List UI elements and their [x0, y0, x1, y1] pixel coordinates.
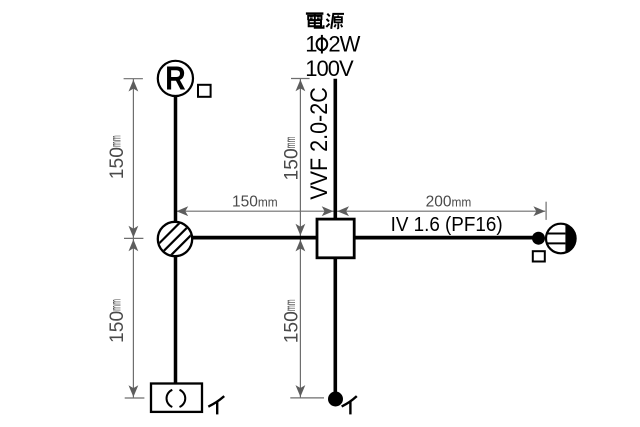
- 源: [326, 14, 330, 27]
- svg-text:IV 1.6 (PF16): IV 1.6 (PF16): [391, 214, 503, 236]
- svg-text:R: R: [165, 60, 186, 97]
- label イ (for rosette): [209, 397, 223, 413]
- dimension tick top-centre: [291, 78, 310, 80]
- dimension tick bottom-left: [125, 397, 145, 399]
- wire: vertical lamp receptacle to outlet box: [174, 96, 178, 223]
- wire: vertical from junction box to switch イ: [333, 258, 337, 393]
- svg-text:2W: 2W: [328, 32, 360, 57]
- junction box (square): [317, 219, 354, 258]
- svg-text:150mm: 150mm: [107, 299, 128, 343]
- ceiling rosette (angular): [151, 384, 202, 412]
- outlet box (hatched circle): [150, 217, 198, 259]
- dimension text 150mm left-bottom (rotated): [107, 299, 128, 343]
- svg-text:150mm: 150mm: [282, 137, 303, 181]
- wall outlet (circle, right half black, two bars): [546, 224, 576, 254]
- label ロ (for right outlet): [533, 251, 545, 261]
- wire: horizontal outlet box to junction box: [191, 236, 317, 240]
- svg-text:150mm: 150mm: [232, 193, 278, 210]
- power source label 電源 (kanji drawn): [306, 14, 344, 29]
- label イ (for switch): [343, 397, 356, 413]
- dimension: left vertical line: [132, 79, 134, 398]
- dimension tick top-left: [124, 78, 143, 80]
- rosette inner ( ): [167, 390, 186, 407]
- switch dot at right outlet: [532, 232, 545, 245]
- svg-text:100V: 100V: [305, 56, 354, 81]
- wire: power feed vertical VVF 2.0-2C: [333, 79, 337, 219]
- svg-text:150mm: 150mm: [107, 135, 128, 179]
- dimension: centre vertical line: [299, 79, 301, 399]
- lamp receptacle R: [158, 61, 193, 96]
- 電: [306, 12, 324, 14]
- svg-text:VVF 2.0-2C: VVF 2.0-2C: [306, 87, 333, 200]
- arrowheads centre dimension: [296, 80, 306, 397]
- svg-text:200mm: 200mm: [426, 193, 472, 210]
- dimension text 150mm centre-bottom (rotated): [282, 299, 303, 343]
- label ロ (for R): [198, 85, 211, 97]
- arrowheads left dimension: [129, 80, 139, 397]
- dimension: horizontal line 150mm/200mm: [176, 210, 545, 212]
- dimension text 150mm centre-top (rotated): [282, 137, 303, 181]
- dimension tick bottom-centre: [290, 397, 324, 399]
- dimension tick right end: [545, 202, 547, 220]
- dimension tick mid-left: [124, 237, 143, 239]
- dimension text 150mm left-top (rotated): [107, 135, 128, 179]
- svg-text:150mm: 150mm: [282, 299, 303, 343]
- arrowheads horizontal dimension: [176, 206, 545, 216]
- wire: horizontal junction box to switch/outlet IV 1.6 (PF16): [354, 236, 533, 240]
- switch イ (black dot at bottom): [328, 392, 343, 407]
- wire: vertical outlet box to ceiling rosette: [174, 256, 178, 385]
